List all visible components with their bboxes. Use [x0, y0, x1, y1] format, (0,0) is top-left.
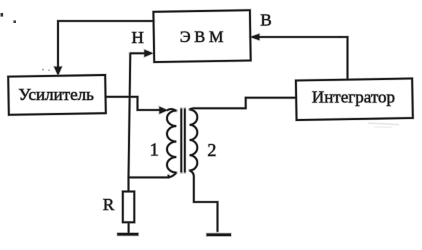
- svg-text:Интегратор: Интегратор: [312, 87, 395, 106]
- svg-text:Н: Н: [131, 28, 143, 47]
- svg-text:Усилитель: Усилитель: [18, 85, 94, 104]
- svg-text:1: 1: [150, 140, 159, 160]
- svg-text:R: R: [103, 195, 115, 214]
- svg-text:ЭВМ: ЭВМ: [180, 28, 227, 46]
- svg-text:2: 2: [207, 140, 216, 160]
- svg-text:В: В: [260, 11, 271, 30]
